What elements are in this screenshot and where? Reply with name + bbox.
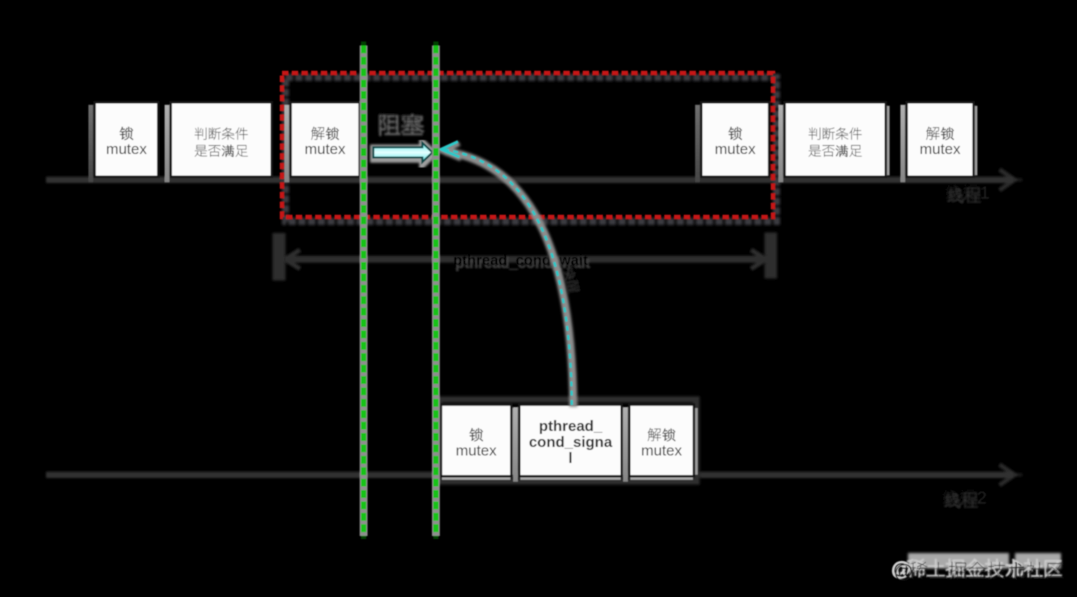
white step box shadow strip <box>513 407 518 482</box>
label wake (huanxing ghost, rotated) <box>562 264 583 294</box>
dimension line pthread_cond_wait <box>273 233 778 281</box>
svg-text:@: @ <box>894 561 914 583</box>
svg-text:mutex: mutex <box>715 141 756 158</box>
cyan block arrow shadow <box>374 144 433 163</box>
white step box shadow strip <box>88 105 93 183</box>
white step box shadow strip <box>900 105 905 183</box>
timeline thread2 <box>46 465 1023 486</box>
signal curve (pthread_cond_signal wakes wait) <box>444 150 572 406</box>
svg-text:mutex: mutex <box>106 141 147 158</box>
svg-text:l: l <box>568 450 572 467</box>
watermark juejin <box>908 553 1061 569</box>
signal curve shadow <box>443 144 574 408</box>
label thread2 <box>942 488 986 508</box>
white step box shadow strip <box>435 407 440 482</box>
timeline thread1 <box>46 170 1023 191</box>
svg-text:pthread_: pthread_ <box>539 418 603 435</box>
green marker line <box>432 46 440 537</box>
svg-text:mutex: mutex <box>305 141 346 158</box>
svg-text:mutex: mutex <box>920 141 961 158</box>
white step box shadow strip <box>623 407 628 482</box>
green marker line <box>360 46 368 537</box>
svg-text:pthread_cond_wait: pthread_cond_wait <box>453 253 588 269</box>
label blocked (zusai ghost) <box>378 111 424 135</box>
svg-text:cond_signa: cond_signa <box>529 434 613 451</box>
svg-text:1: 1 <box>980 183 990 203</box>
white step box shadow strip <box>284 105 289 183</box>
svg-text:mutex: mutex <box>456 442 497 459</box>
white step box shadow strip <box>165 105 170 183</box>
cyan block arrow <box>373 143 432 162</box>
white step box shadow strip <box>695 105 700 183</box>
white step box shadow strip <box>778 105 783 183</box>
svg-text:2: 2 <box>977 488 987 508</box>
signal group container shadow <box>439 400 697 482</box>
svg-text:mutex: mutex <box>641 442 682 459</box>
label thread1 <box>945 183 989 203</box>
red dashed wait-block rectangle <box>286 78 777 222</box>
